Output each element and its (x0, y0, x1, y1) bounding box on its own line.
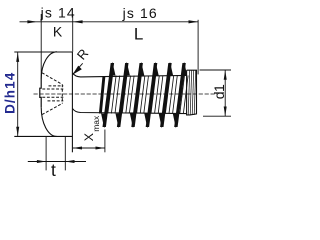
Xmax dimension line (73, 147, 105, 149)
head bottom outline / D extension line (14, 135, 72, 137)
D dimension line (17, 52, 19, 136)
hidden slot wing line 3 (42, 96, 63, 98)
hidden slot wing line 4 (48, 100, 64, 102)
svg-text:t: t (51, 160, 56, 180)
hidden slot wing line 2 (42, 88, 63, 90)
crest band 3 (131, 63, 143, 127)
head top dome arc (41, 52, 57, 79)
Xmax right arrow (96, 147, 105, 150)
thread run-in band (99, 76, 106, 114)
t dimension line (28, 161, 86, 163)
neck top line with under-head fillet (73, 73, 187, 77)
svg-text:D/h14: D/h14 (2, 72, 17, 114)
centerline (screw axis) (34, 93, 218, 95)
crest band 1 (103, 63, 115, 127)
head left face with slot notch (40, 79, 41, 107)
thread crest bands (99, 76, 106, 114)
screw tip cylinder outline (187, 70, 197, 115)
svg-text:js 14: js 14 (40, 5, 76, 21)
js14/js16 shared arrow at head face (73, 20, 83, 23)
d1 bottom extension line (203, 115, 231, 117)
js14 left arrow (27, 20, 37, 23)
hidden recess lower diagonal (42, 104, 62, 115)
dimension graphics (18, 14, 231, 170)
d1 bottom arrow (224, 107, 227, 117)
svg-text:d1: d1 (211, 84, 227, 99)
top dimension line (js14 + js16) (20, 21, 199, 23)
tip cylinder hatch lines (188, 70, 190, 115)
t right extension line (64, 137, 66, 171)
crest band 5 (160, 63, 172, 127)
arrowheads (16, 20, 227, 163)
hidden slot wing line 1 (49, 85, 64, 87)
L right extension line (197, 20, 199, 75)
t left extension line (45, 137, 47, 171)
R leader arrow (72, 66, 81, 75)
t right arrow (65, 160, 74, 163)
crest band 4 (146, 63, 158, 127)
head top outline / D extension line (14, 51, 72, 53)
d1 top extension line (200, 69, 232, 71)
head bottom dome arc (41, 107, 57, 136)
R leader line (73, 63, 83, 74)
hidden recess vertical (61, 84, 63, 103)
thread root thin flank lines (108, 70, 196, 115)
d1 dimension line (224, 70, 226, 116)
svg-text:max: max (91, 115, 101, 132)
svg-text:js 16: js 16 (122, 5, 158, 21)
t left arrow (37, 160, 46, 163)
Xmax right extension line (104, 130, 106, 153)
js16 right arrow (189, 20, 199, 23)
K/L shared extension line (72, 14, 74, 52)
d1 top arrow (224, 70, 227, 80)
K left extension line (40, 14, 42, 79)
svg-text:L: L (134, 25, 143, 44)
svg-text:X: X (82, 133, 96, 141)
neck bottom line with under-head fillet (73, 109, 187, 114)
crest band 2 (117, 63, 129, 127)
crest band 6 (174, 63, 186, 127)
head right bearing face (extended down as Xmax extension) (71, 52, 73, 153)
D bottom arrow (16, 127, 19, 137)
Xmax left arrow (73, 147, 82, 150)
hidden recess upper diagonal (42, 73, 62, 85)
svg-text:K: K (53, 24, 63, 40)
D top arrow (16, 52, 19, 62)
